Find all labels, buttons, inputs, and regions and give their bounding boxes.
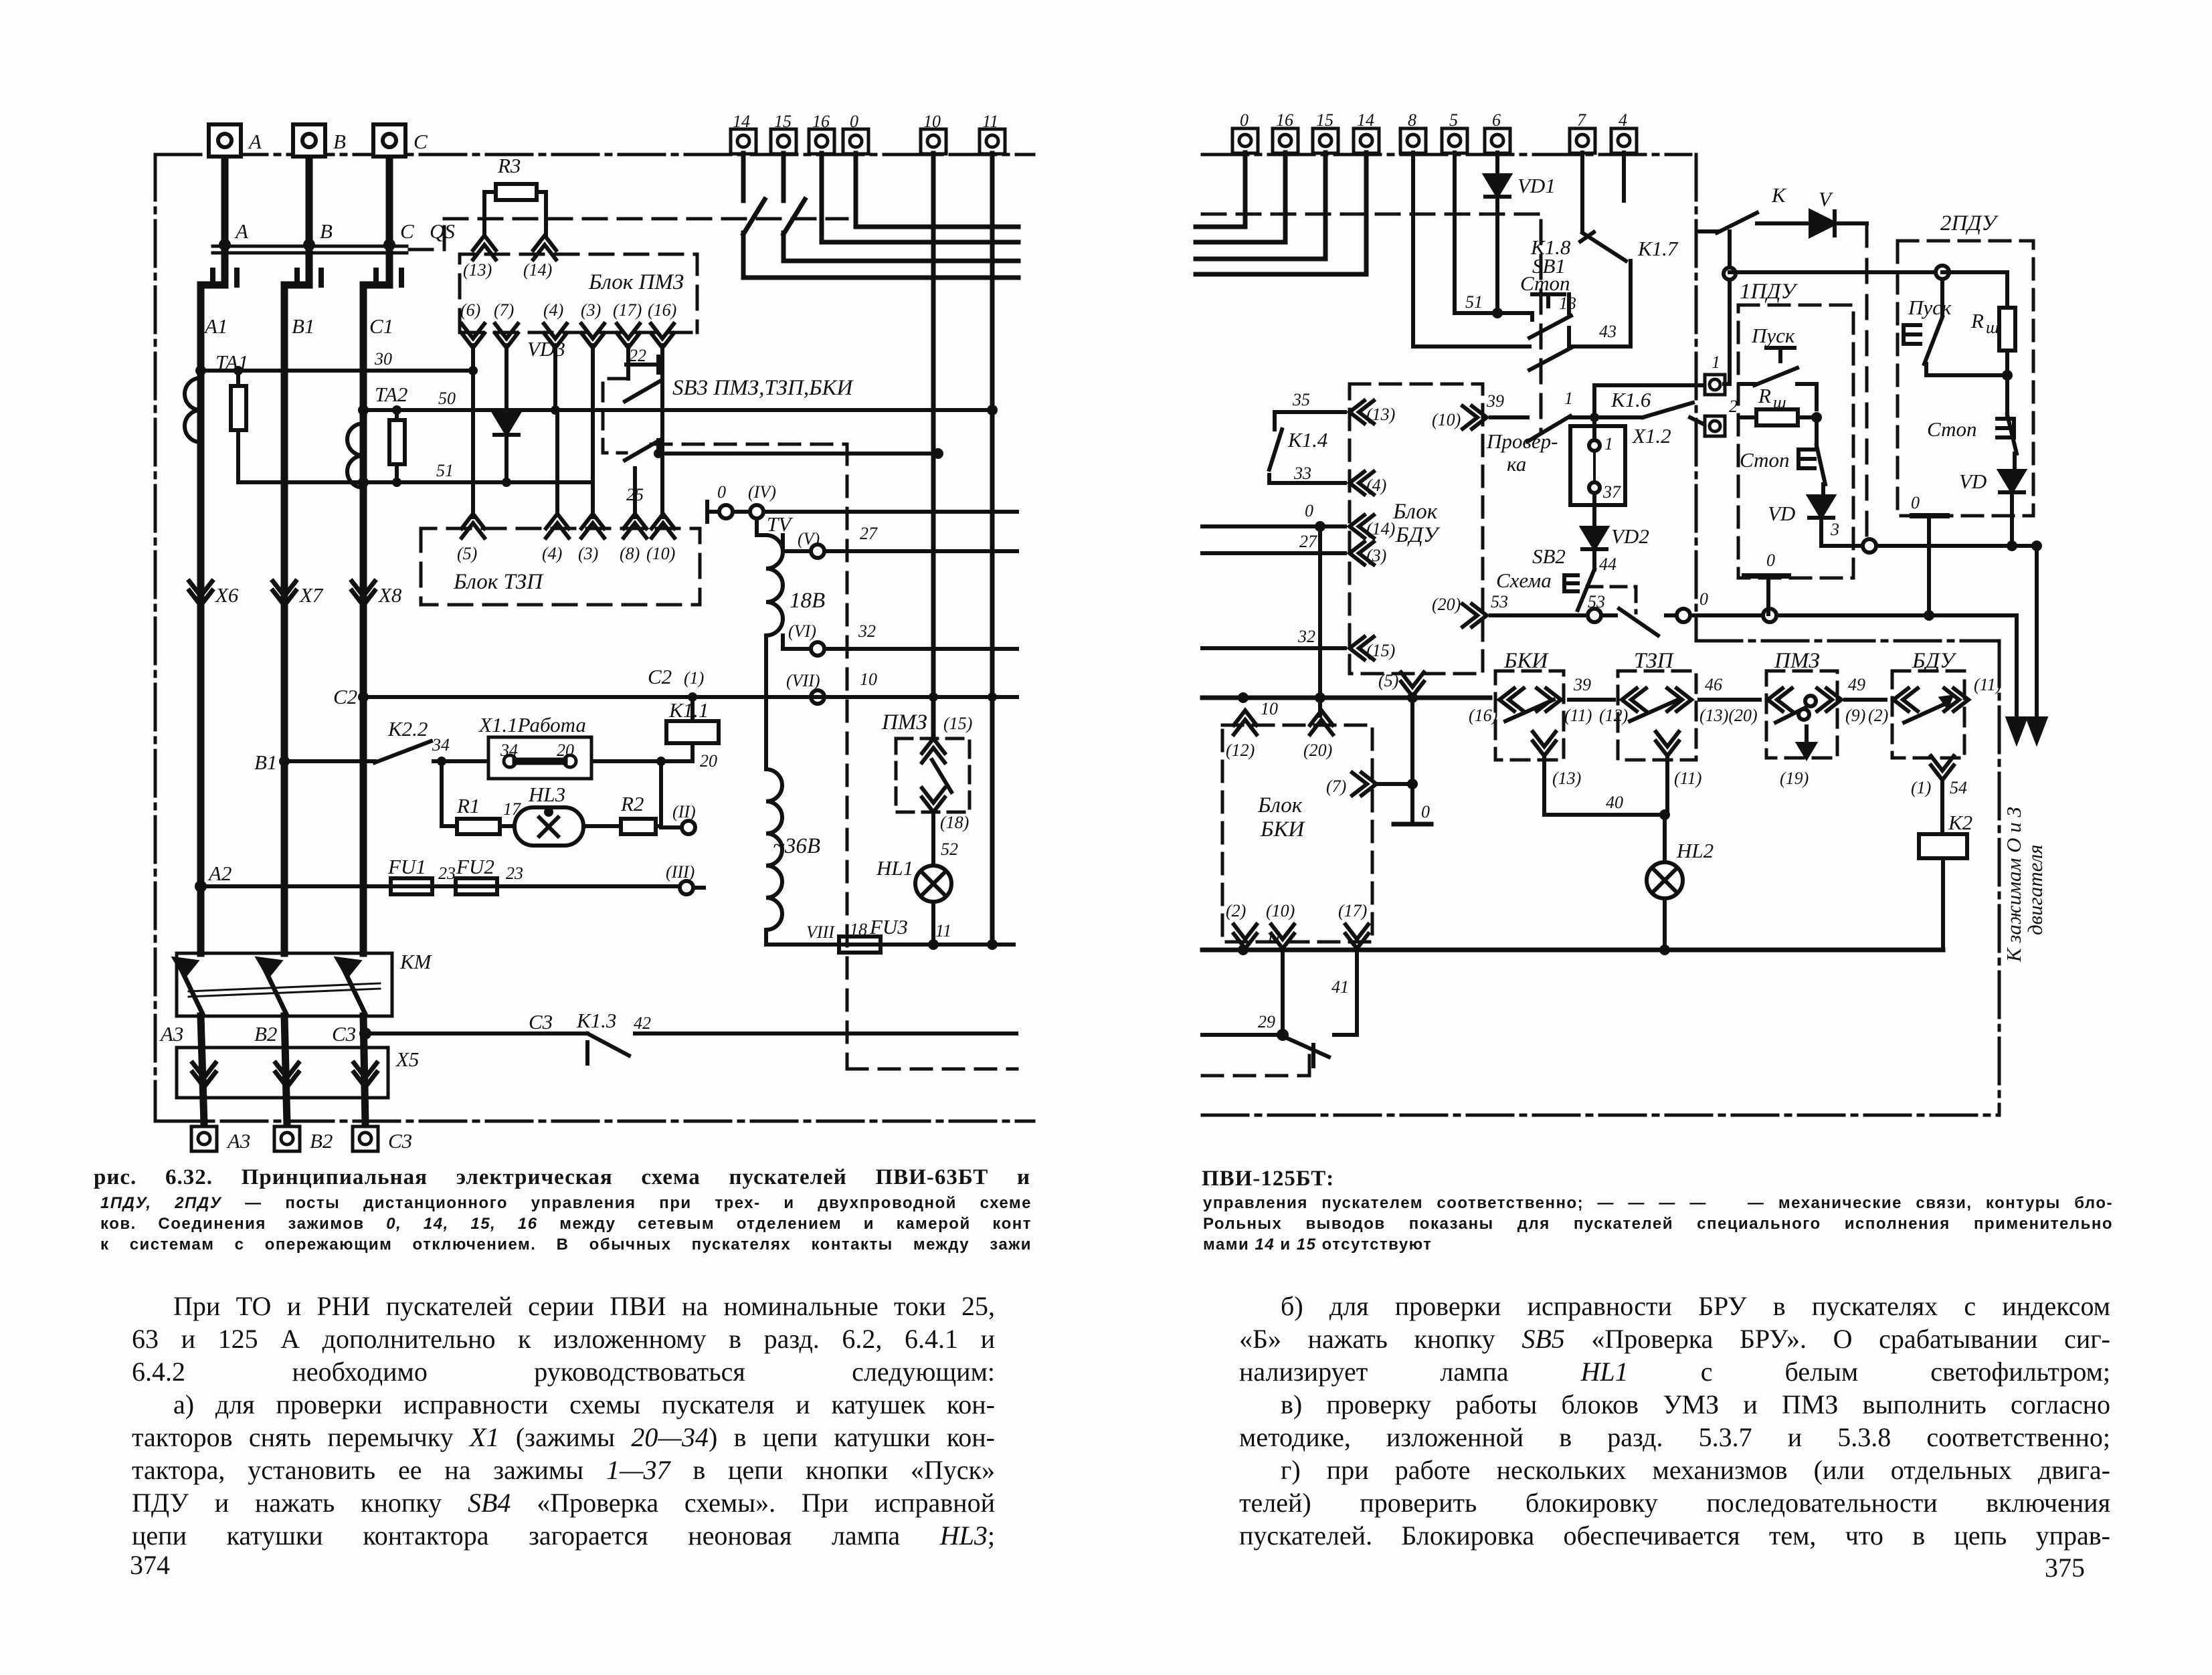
svg-text:VD1: VD1 xyxy=(1517,174,1556,197)
wire terminal 10 vertical xyxy=(931,153,936,738)
svg-text:(1): (1) xyxy=(684,668,704,688)
svg-text:(III): (III) xyxy=(666,862,695,882)
wire 8 down xyxy=(1411,153,1415,347)
svg-text:(18): (18) xyxy=(940,813,969,832)
tap (VI) wire 32 xyxy=(783,635,1017,656)
node A xyxy=(219,239,231,251)
wire top row to 2PDU xyxy=(1724,231,1937,384)
svg-text:K1.1: K1.1 xyxy=(668,698,709,722)
svg-text:42: 42 xyxy=(634,1013,651,1033)
svg-text:X8: X8 xyxy=(377,583,402,607)
terminal 5 xyxy=(1442,128,1467,153)
svg-text:11: 11 xyxy=(935,921,951,941)
caption right title xyxy=(1202,1167,1334,1191)
wire phase A vertical xyxy=(201,157,389,1124)
terminal 15 xyxy=(771,129,796,154)
svg-text:34: 34 xyxy=(432,735,450,755)
pin (4) BDU xyxy=(1350,472,1374,494)
svg-text:C2: C2 xyxy=(333,685,357,708)
pin (14) of PMZ block xyxy=(533,235,556,260)
svg-text:(4): (4) xyxy=(543,300,563,320)
wire return row xyxy=(1821,539,2037,553)
svg-text:K2.2: K2.2 xyxy=(387,717,428,741)
terminal 14 xyxy=(731,129,756,154)
terminal B2 xyxy=(274,1126,300,1151)
svg-text:B: B xyxy=(333,130,346,153)
svg-text:30: 30 xyxy=(374,349,392,369)
svg-text:(15): (15) xyxy=(1366,641,1395,660)
svg-text:X1.2: X1.2 xyxy=(1631,424,1671,448)
svg-text:39: 39 xyxy=(1486,391,1504,411)
svg-text:2: 2 xyxy=(1729,397,1738,416)
node 0 (IV) xyxy=(707,502,1017,522)
ground 0 xyxy=(1394,822,1431,827)
svg-text:К2: К2 xyxy=(1948,811,1972,834)
resistor R3 xyxy=(484,184,546,235)
terminal 7 xyxy=(1570,128,1595,153)
dashed row right page xyxy=(1202,214,1541,433)
svg-text:K1.4: K1.4 xyxy=(1287,428,1327,452)
pin (2) BKI xyxy=(1234,924,1257,949)
svg-text:(13): (13) xyxy=(1366,405,1395,424)
box 2PDU xyxy=(1898,241,2033,516)
dashed link vertical xyxy=(651,444,1017,1069)
svg-text:(VI): (VI) xyxy=(788,621,816,641)
svg-text:Блок ПМЗ: Блок ПМЗ xyxy=(588,270,684,294)
wire 27 row to (3) xyxy=(1202,551,1345,555)
svg-text:B: B xyxy=(320,219,333,243)
svg-text:Пуск: Пуск xyxy=(1908,296,1952,319)
svg-text:(19): (19) xyxy=(1780,769,1809,788)
svg-text:(2): (2) xyxy=(1868,706,1888,725)
wire from 16 xyxy=(822,153,1018,242)
svg-text:52: 52 xyxy=(941,840,958,859)
svg-text:23: 23 xyxy=(506,864,523,883)
wire 50 xyxy=(363,408,992,412)
svg-text:ПМЗ: ПМЗ xyxy=(881,710,927,734)
svg-text:(4): (4) xyxy=(1366,476,1386,495)
svg-text:33: 33 xyxy=(1293,464,1311,483)
svg-text:B2: B2 xyxy=(254,1022,277,1046)
svg-text:(14): (14) xyxy=(523,260,552,280)
lamp HL2 xyxy=(1663,815,1667,862)
svg-text:C: C xyxy=(400,219,414,243)
wire B1 row xyxy=(284,759,693,763)
svg-text:R: R xyxy=(1758,384,1771,407)
arrow to motor terminal Z xyxy=(2028,546,2045,741)
pin (10) BDU xyxy=(1463,406,1487,429)
node C xyxy=(383,239,395,251)
svg-text:(7): (7) xyxy=(1326,777,1346,796)
svg-text:(5): (5) xyxy=(457,544,477,563)
arrow to motor terminal O xyxy=(2008,615,2025,741)
svg-text:C3: C3 xyxy=(529,1010,553,1033)
svg-text:Стоп: Стоп xyxy=(1740,448,1790,472)
diode VD3 xyxy=(504,345,509,482)
svg-text:C1: C1 xyxy=(369,314,393,338)
fuse FU2 xyxy=(456,878,497,894)
terminal 10 xyxy=(921,129,946,154)
svg-text:53: 53 xyxy=(1491,592,1508,611)
connector X5 box xyxy=(177,1048,388,1098)
pin (17) xyxy=(617,324,640,348)
svg-text:A3: A3 xyxy=(159,1022,183,1046)
wire 29 with contact xyxy=(1202,1035,1357,1066)
pin (4) of TZP xyxy=(546,514,569,538)
main wire row 10 xyxy=(1202,696,1490,700)
svg-text:20: 20 xyxy=(700,751,717,771)
wire C2 xyxy=(363,695,1017,699)
svg-text:БКИ: БКИ xyxy=(1260,817,1305,842)
svg-text:7: 7 xyxy=(1577,110,1586,130)
svg-text:(20): (20) xyxy=(1432,595,1461,614)
terminal 6 xyxy=(1485,128,1510,153)
svg-text:32: 32 xyxy=(858,621,876,641)
svg-text:43: 43 xyxy=(1599,322,1617,341)
block BDU big dashed box xyxy=(1350,384,1483,674)
svg-text:C: C xyxy=(413,130,428,153)
dashed mech link bottom xyxy=(1202,1052,1309,1076)
svg-text:HL3: HL3 xyxy=(528,783,565,806)
caption right small xyxy=(1203,1193,2113,1255)
svg-text:15: 15 xyxy=(774,112,792,131)
terminal 2 small xyxy=(1705,416,1725,436)
node circle 2PDU xyxy=(1936,266,1949,279)
wire from 14 with contact xyxy=(743,153,1018,278)
terminal 16 xyxy=(809,129,834,154)
svg-text:37: 37 xyxy=(1602,482,1621,502)
wire from 0 xyxy=(856,153,1018,227)
svg-text:Стоп: Стоп xyxy=(1520,272,1570,295)
terminal 0r xyxy=(1232,128,1258,153)
wire 39 row with SB4 and K1.6 xyxy=(1491,403,1705,441)
pin (10) of TZP xyxy=(652,514,674,538)
jumper X1.2 xyxy=(1570,385,1625,528)
svg-text:4: 4 xyxy=(1619,110,1627,130)
svg-text:1: 1 xyxy=(1564,389,1573,408)
svg-text:(16): (16) xyxy=(648,300,676,320)
svg-text:6: 6 xyxy=(1492,110,1501,130)
page number 375 xyxy=(2045,1552,2085,1583)
svg-text:A3: A3 xyxy=(226,1129,250,1153)
svg-text:Х1.1Работа: Х1.1Работа xyxy=(478,713,586,736)
svg-text:R: R xyxy=(1970,309,1984,332)
svg-text:(VII): (VII) xyxy=(786,671,820,690)
resistor TA1 shunt xyxy=(231,371,246,482)
terminal 1 small xyxy=(1705,375,1725,395)
wire (10) down / 29 xyxy=(1281,949,1285,1035)
connector X6 xyxy=(189,581,212,605)
svg-text:Пуск: Пуск xyxy=(1751,324,1795,347)
svg-text:(11): (11) xyxy=(1674,769,1701,788)
pin (12) BKI xyxy=(1234,710,1257,734)
wire 1 row xyxy=(1594,383,1705,387)
svg-text:(13)(20): (13)(20) xyxy=(1699,706,1758,725)
QS disconnect switch xyxy=(213,246,407,253)
chain border right page xyxy=(1202,155,1999,1115)
svg-text:VIII: VIII xyxy=(806,922,835,942)
pushbutton SB3 xyxy=(625,345,660,517)
wire (7) row xyxy=(1376,782,1412,786)
block BKI dashed box xyxy=(1222,725,1372,942)
svg-text:(16): (16) xyxy=(1469,706,1497,725)
svg-text:35: 35 xyxy=(1292,390,1310,409)
pin (3) xyxy=(581,324,604,348)
svg-text:R3: R3 xyxy=(497,154,521,177)
svg-text:(8): (8) xyxy=(620,544,640,563)
wire (17) down / 41 xyxy=(1355,949,1359,1035)
svg-text:VD2: VD2 xyxy=(1611,524,1649,548)
contact K1.7 xyxy=(1580,153,1631,347)
svg-text:29: 29 xyxy=(1258,1012,1275,1031)
svg-text:(11): (11) xyxy=(1974,675,2001,694)
svg-text:27: 27 xyxy=(1299,532,1317,551)
svg-text:VD3: VD3 xyxy=(527,337,565,361)
neon lamp HL3 xyxy=(515,807,583,846)
svg-text:39: 39 xyxy=(1573,675,1591,694)
caption left title xyxy=(94,1165,1030,1190)
wire 0r bend xyxy=(1196,153,1366,274)
node B xyxy=(303,239,315,251)
terminal 15r xyxy=(1313,128,1338,153)
svg-text:X7: X7 xyxy=(298,583,324,607)
resistor TA2 shunt xyxy=(389,410,405,482)
svg-text:FU1: FU1 xyxy=(387,855,426,878)
wire 40 xyxy=(1544,813,1667,817)
svg-text:(10): (10) xyxy=(1266,901,1295,920)
body left xyxy=(132,1290,995,1552)
svg-text:50: 50 xyxy=(438,389,456,408)
svg-text:ш: ш xyxy=(1986,318,1999,337)
contact K1.4 xyxy=(1269,412,1345,483)
wire 43 xyxy=(1413,344,1631,349)
pin (5) of TZP xyxy=(462,514,484,538)
pin (3) BDU xyxy=(1350,542,1374,565)
svg-text:(17): (17) xyxy=(613,300,642,320)
current transformer TA2 xyxy=(347,423,363,488)
pin (20) BKI xyxy=(1310,710,1333,734)
svg-text:VD: VD xyxy=(1959,470,1987,493)
X5 pole arrows xyxy=(193,1063,377,1087)
svg-text:X6: X6 xyxy=(214,583,239,607)
svg-text:Схема: Схема xyxy=(1496,569,1552,592)
svg-text:K1.3: K1.3 xyxy=(576,1009,616,1032)
wire (5) down xyxy=(1410,696,1414,824)
svg-text:Стоп: Стоп xyxy=(1927,417,1977,441)
wire 51 xyxy=(238,480,593,484)
svg-text:0: 0 xyxy=(717,482,726,502)
svg-text:51: 51 xyxy=(1465,292,1483,312)
svg-text:20: 20 xyxy=(557,741,574,760)
wire 42 with contact K1.3 xyxy=(365,1033,1016,1064)
svg-text:QS: QS xyxy=(430,219,455,243)
svg-text:(5): (5) xyxy=(1378,671,1398,690)
contactor KM box xyxy=(177,953,392,1016)
svg-text:34: 34 xyxy=(500,741,518,760)
svg-text:(15): (15) xyxy=(943,714,972,733)
svg-text:46: 46 xyxy=(1705,675,1722,694)
pin (4) xyxy=(544,324,567,348)
KM poles xyxy=(175,959,365,1014)
pin (7) xyxy=(495,324,518,348)
svg-text:11: 11 xyxy=(982,112,998,131)
svg-text:R2: R2 xyxy=(620,792,644,815)
svg-text:11: 11 xyxy=(1266,928,1282,947)
svg-text:R1: R1 xyxy=(456,794,480,817)
svg-text:B1: B1 xyxy=(254,751,277,774)
tap (VII) wire 10 xyxy=(811,690,824,704)
svg-text:(6): (6) xyxy=(460,300,480,320)
pin (20) BDU xyxy=(1463,604,1487,627)
svg-text:41: 41 xyxy=(1331,977,1349,997)
pin (13) of PMZ block xyxy=(473,235,496,260)
body right xyxy=(1239,1290,2110,1552)
svg-text:0: 0 xyxy=(1699,589,1708,609)
svg-text:HL1: HL1 xyxy=(876,856,913,880)
svg-text:FU3: FU3 xyxy=(869,915,908,939)
connector X8 xyxy=(352,581,375,605)
svg-text:13: 13 xyxy=(1559,294,1576,313)
terminal C xyxy=(373,124,405,157)
terminal 16r xyxy=(1273,128,1298,153)
diode VD2 xyxy=(1582,528,1606,549)
svg-text:C3: C3 xyxy=(388,1129,412,1153)
wire terminal 11 vertical xyxy=(990,153,995,945)
svg-text:0: 0 xyxy=(850,112,858,131)
svg-text:A1: A1 xyxy=(203,314,227,338)
wire 4 down xyxy=(1622,153,1626,201)
svg-text:0: 0 xyxy=(1421,802,1430,821)
svg-text:B1: B1 xyxy=(292,314,314,338)
svg-text:K1.7: K1.7 xyxy=(1637,237,1679,260)
contact PMZ (with dashed frame) xyxy=(896,738,970,812)
wire 0 row to (14) xyxy=(1202,524,1345,528)
wire A2 row with fuses xyxy=(201,886,711,888)
pin (15) BDU xyxy=(1350,637,1374,660)
svg-text:Блок: Блок xyxy=(1392,500,1438,524)
svg-text:15: 15 xyxy=(1316,110,1333,130)
svg-text:V: V xyxy=(1819,187,1833,211)
svg-text:Блок ТЗП: Блок ТЗП xyxy=(453,570,544,594)
svg-text:18: 18 xyxy=(850,920,867,939)
svg-text:(V): (V) xyxy=(798,529,820,549)
svg-text:(17): (17) xyxy=(1338,901,1367,920)
svg-text:(11): (11) xyxy=(1564,706,1592,725)
svg-text:14: 14 xyxy=(733,112,750,131)
pin (14) BDU xyxy=(1350,515,1374,538)
svg-text:(3): (3) xyxy=(578,544,598,563)
svg-text:K: K xyxy=(1771,183,1787,207)
wire 0 vertical xyxy=(1318,526,1322,716)
svg-text:(II): (II) xyxy=(672,802,696,821)
resistor R2 xyxy=(621,819,656,834)
svg-text:(20): (20) xyxy=(1303,741,1332,760)
svg-text:VD: VD xyxy=(1768,502,1795,525)
svg-text:(7): (7) xyxy=(494,300,514,320)
lamp HL1 xyxy=(915,866,951,902)
svg-text:HL2: HL2 xyxy=(1676,839,1714,862)
jumper X1.1 Работа xyxy=(488,737,591,779)
svg-text:A: A xyxy=(248,130,262,153)
wire from 15 with contact xyxy=(784,153,1018,261)
terminal C3 xyxy=(353,1126,378,1151)
tap (V) wire 27 xyxy=(783,535,1017,558)
wire pin3 down xyxy=(591,345,595,517)
caption left small xyxy=(100,1193,1032,1255)
pin (3) of TZP xyxy=(581,514,604,538)
svg-text:A2: A2 xyxy=(207,862,232,885)
contact K2.2 xyxy=(375,741,431,763)
wire pin6 down xyxy=(471,345,475,517)
svg-text:0: 0 xyxy=(1911,493,1920,512)
dashed link vertical 2pdu xyxy=(1865,223,1869,539)
svg-text:14: 14 xyxy=(1357,110,1374,130)
svg-text:27: 27 xyxy=(860,524,878,543)
svg-text:16: 16 xyxy=(812,112,830,131)
pin (13) BDU xyxy=(1350,401,1374,423)
svg-text:X5: X5 xyxy=(395,1048,419,1071)
wire pin16 down to TZP xyxy=(660,345,664,517)
block TZP dashed box xyxy=(421,528,700,605)
relay coil K2 xyxy=(1919,834,1967,950)
connector X7 xyxy=(273,581,296,605)
svg-text:Блок: Блок xyxy=(1257,793,1303,817)
svg-text:1: 1 xyxy=(1604,434,1613,454)
svg-text:(9): (9) xyxy=(1845,706,1865,725)
terminal (III) xyxy=(680,881,693,894)
svg-text:(13): (13) xyxy=(463,260,492,280)
terminal (II) xyxy=(682,821,695,834)
pin (17) BKI xyxy=(1346,924,1368,949)
svg-text:K1.6: K1.6 xyxy=(1610,388,1651,411)
terminal B xyxy=(293,124,325,157)
svg-text:0: 0 xyxy=(1305,501,1313,520)
svg-text:(3): (3) xyxy=(581,300,601,320)
wire 0 / 53 row xyxy=(1491,609,2017,635)
current transformer TA1 xyxy=(185,378,201,442)
wire pin4 TZP up xyxy=(555,410,559,514)
QS hooks xyxy=(213,270,401,285)
svg-text:Провер-: Провер- xyxy=(1486,429,1558,453)
svg-text:0: 0 xyxy=(1766,551,1775,570)
svg-text:44: 44 xyxy=(1599,555,1617,574)
fuse FU1 xyxy=(391,878,432,894)
svg-text:54: 54 xyxy=(1950,778,1967,797)
svg-text:(12): (12) xyxy=(1599,706,1628,725)
svg-text:SB2: SB2 xyxy=(1532,545,1566,568)
svg-text:40: 40 xyxy=(1606,793,1623,812)
svg-text:5: 5 xyxy=(1449,110,1458,130)
block PMZ dashed box xyxy=(460,254,697,332)
pin (5) BDU xyxy=(1401,672,1424,696)
terminal 14r xyxy=(1354,128,1379,153)
svg-text:БДУ: БДУ xyxy=(1395,523,1441,547)
svg-text:22: 22 xyxy=(629,346,646,365)
wire 5 down / 51 xyxy=(1455,153,1532,313)
svg-text:(2): (2) xyxy=(1226,901,1246,920)
wire 25 from SB3 xyxy=(658,452,938,456)
QS dashed link xyxy=(409,219,847,250)
terminal A xyxy=(209,124,241,157)
svg-text:8: 8 xyxy=(1408,110,1416,130)
svg-text:10: 10 xyxy=(860,670,877,689)
svg-text:A: A xyxy=(234,219,249,243)
bus wire 11 xyxy=(1202,948,1943,953)
pin (8) of TZP xyxy=(624,514,646,538)
svg-text:(13): (13) xyxy=(1552,769,1581,788)
svg-text:10: 10 xyxy=(923,112,941,131)
svg-text:2ПДУ: 2ПДУ xyxy=(1940,211,1999,235)
